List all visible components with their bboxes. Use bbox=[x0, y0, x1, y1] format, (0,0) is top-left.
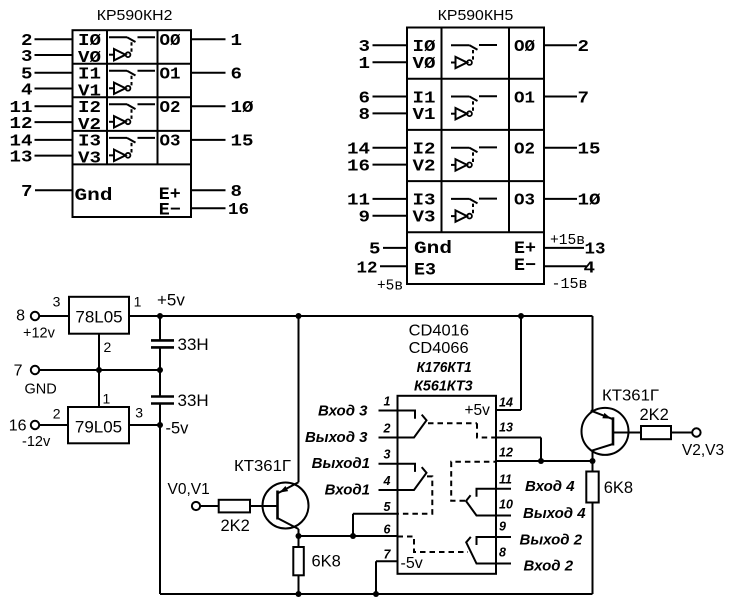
svg-text:E−: E− bbox=[514, 256, 536, 276]
svg-text:O1: O1 bbox=[514, 89, 535, 107]
svg-text:Выход 2: Выход 2 bbox=[520, 532, 583, 549]
svg-text:7: 7 bbox=[21, 183, 33, 201]
svg-text:V2: V2 bbox=[413, 157, 436, 175]
svg-text:1: 1 bbox=[384, 395, 391, 409]
svg-text:16: 16 bbox=[347, 157, 370, 175]
svg-text:КТ361Г: КТ361Г bbox=[602, 388, 660, 405]
svg-text:1Ø: 1Ø bbox=[578, 192, 601, 210]
svg-text:79L05: 79L05 bbox=[75, 418, 122, 437]
svg-text:-5v: -5v bbox=[166, 420, 190, 438]
svg-text:V3: V3 bbox=[78, 149, 101, 167]
svg-text:13: 13 bbox=[585, 241, 606, 259]
svg-text:К561КТ3: К561КТ3 bbox=[414, 379, 473, 395]
svg-text:-12v: -12v bbox=[22, 434, 51, 450]
svg-text:16: 16 bbox=[228, 201, 249, 219]
svg-text:+5v: +5v bbox=[465, 402, 491, 419]
svg-text:6: 6 bbox=[384, 523, 392, 537]
svg-text:КР590КН5: КР590КН5 bbox=[438, 7, 514, 24]
svg-text:7: 7 bbox=[14, 362, 23, 379]
svg-text:9: 9 bbox=[359, 209, 371, 227]
svg-text:O2: O2 bbox=[514, 141, 535, 159]
svg-text:6: 6 bbox=[231, 66, 243, 84]
svg-text:Вход1: Вход1 bbox=[325, 482, 370, 499]
svg-text:V1: V1 bbox=[78, 82, 101, 100]
svg-text:E−: E− bbox=[159, 201, 181, 221]
svg-text:IØ: IØ bbox=[78, 32, 101, 50]
svg-text:+12v: +12v bbox=[23, 325, 56, 341]
svg-text:OØ: OØ bbox=[514, 38, 535, 56]
svg-text:3: 3 bbox=[21, 48, 33, 66]
svg-text:3: 3 bbox=[384, 448, 391, 462]
svg-text:15: 15 bbox=[578, 141, 601, 159]
svg-text:GND: GND bbox=[25, 381, 57, 397]
svg-text:7: 7 bbox=[384, 548, 392, 562]
svg-text:CD4016: CD4016 bbox=[409, 322, 469, 339]
svg-text:3: 3 bbox=[135, 405, 143, 421]
svg-text:O3: O3 bbox=[160, 132, 181, 150]
svg-text:-15в: -15в bbox=[552, 277, 588, 293]
svg-text:+5v: +5v bbox=[157, 291, 185, 310]
svg-text:6K8: 6K8 bbox=[604, 479, 633, 497]
svg-text:К176КТ1: К176КТ1 bbox=[417, 360, 472, 376]
svg-text:9: 9 bbox=[499, 520, 506, 534]
svg-text:Выход 4: Выход 4 bbox=[523, 505, 586, 522]
svg-text:11: 11 bbox=[347, 192, 370, 210]
svg-text:Выход 3: Выход 3 bbox=[305, 429, 368, 446]
svg-text:8: 8 bbox=[231, 183, 243, 201]
svg-text:78L05: 78L05 bbox=[75, 308, 122, 327]
svg-text:CD4066: CD4066 bbox=[409, 340, 469, 357]
svg-text:8: 8 bbox=[359, 106, 371, 124]
svg-text:I1: I1 bbox=[78, 65, 101, 83]
svg-text:4: 4 bbox=[584, 260, 596, 278]
svg-text:6: 6 bbox=[359, 89, 371, 107]
svg-text:11: 11 bbox=[499, 473, 512, 487]
svg-text:Вход 4: Вход 4 bbox=[525, 478, 575, 495]
svg-text:2: 2 bbox=[104, 339, 112, 355]
svg-text:2: 2 bbox=[578, 38, 590, 56]
svg-text:V2: V2 bbox=[78, 116, 101, 134]
svg-text:Выход1: Выход1 bbox=[312, 455, 370, 472]
svg-text:13: 13 bbox=[499, 421, 513, 435]
svg-text:1: 1 bbox=[103, 391, 111, 407]
svg-text:O1: O1 bbox=[160, 65, 181, 83]
svg-text:OØ: OØ bbox=[160, 32, 181, 50]
svg-text:12: 12 bbox=[10, 115, 33, 133]
svg-text:6K8: 6K8 bbox=[312, 552, 341, 570]
svg-text:Вход 2: Вход 2 bbox=[524, 558, 574, 575]
svg-text:E3: E3 bbox=[414, 261, 436, 281]
svg-text:I2: I2 bbox=[413, 141, 436, 159]
svg-text:5: 5 bbox=[369, 241, 381, 259]
svg-text:4: 4 bbox=[383, 474, 391, 488]
svg-text:O2: O2 bbox=[160, 99, 181, 117]
svg-text:1: 1 bbox=[359, 55, 371, 73]
svg-text:I1: I1 bbox=[413, 89, 436, 107]
svg-text:2: 2 bbox=[53, 406, 61, 422]
svg-text:16: 16 bbox=[9, 418, 27, 435]
svg-text:15: 15 bbox=[231, 133, 254, 151]
svg-text:V1: V1 bbox=[413, 106, 436, 124]
svg-text:12: 12 bbox=[499, 446, 513, 460]
svg-text:14: 14 bbox=[347, 141, 370, 159]
svg-text:33Н: 33Н bbox=[178, 335, 209, 354]
svg-text:I3: I3 bbox=[78, 132, 101, 150]
svg-text:2K2: 2K2 bbox=[640, 406, 669, 424]
svg-text:+5в: +5в bbox=[377, 279, 403, 295]
svg-text:4: 4 bbox=[21, 81, 33, 99]
svg-text:2: 2 bbox=[383, 422, 391, 436]
svg-text:7: 7 bbox=[578, 89, 590, 107]
svg-text:O3: O3 bbox=[514, 192, 535, 210]
svg-text:13: 13 bbox=[10, 148, 33, 166]
svg-text:3: 3 bbox=[53, 294, 61, 310]
svg-text:8: 8 bbox=[16, 308, 25, 325]
svg-text:VØ: VØ bbox=[78, 49, 101, 67]
svg-text:Gnd: Gnd bbox=[75, 186, 113, 206]
svg-text:8: 8 bbox=[499, 546, 506, 560]
svg-text:V2,V3: V2,V3 bbox=[682, 442, 724, 459]
svg-text:10: 10 bbox=[499, 498, 513, 512]
svg-text:IØ: IØ bbox=[413, 38, 436, 56]
svg-text:12: 12 bbox=[357, 260, 378, 278]
svg-text:VØ: VØ bbox=[413, 55, 436, 73]
svg-text:КР590КН2: КР590КН2 bbox=[97, 7, 173, 24]
svg-text:5: 5 bbox=[384, 500, 392, 514]
svg-text:Gnd: Gnd bbox=[414, 239, 452, 259]
svg-text:1: 1 bbox=[134, 294, 142, 310]
svg-text:+15в: +15в bbox=[550, 233, 585, 249]
svg-text:Вход 3: Вход 3 bbox=[318, 403, 368, 420]
svg-text:1Ø: 1Ø bbox=[231, 99, 254, 117]
svg-text:-5v: -5v bbox=[401, 555, 423, 572]
svg-text:14: 14 bbox=[499, 396, 513, 410]
svg-text:V3: V3 bbox=[413, 209, 436, 227]
svg-text:1: 1 bbox=[231, 32, 243, 50]
svg-text:2K2: 2K2 bbox=[221, 517, 250, 535]
svg-text:I3: I3 bbox=[413, 192, 436, 210]
svg-text:I2: I2 bbox=[78, 99, 101, 117]
svg-text:КТ361Г: КТ361Г bbox=[234, 458, 292, 475]
svg-text:V0,V1: V0,V1 bbox=[168, 481, 210, 498]
svg-text:33Н: 33Н bbox=[178, 391, 209, 410]
svg-text:3: 3 bbox=[359, 38, 371, 56]
